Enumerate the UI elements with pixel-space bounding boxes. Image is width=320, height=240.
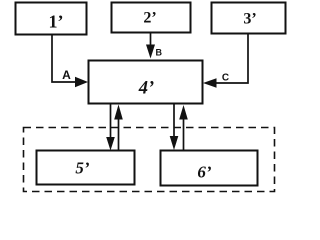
wire 6' up to 4'	[183, 118, 185, 151]
block 1'	[16, 3, 87, 35]
block 3'	[212, 3, 286, 34]
svg-text:C: C	[222, 73, 229, 84]
arrowhead into 6' (down)	[170, 136, 179, 150]
svg-text:4’: 4’	[138, 79, 154, 99]
block 2'	[112, 3, 191, 33]
block 6'	[161, 151, 258, 186]
dashed enclosure	[24, 128, 275, 192]
block 5'	[37, 151, 135, 185]
svg-text:A: A	[62, 68, 71, 82]
arrowhead into 5' (down)	[106, 137, 115, 151]
arrowhead into 4' from 5' (up)	[114, 105, 123, 120]
svg-text:1’: 1’	[49, 12, 64, 32]
wire 4' down to 5'	[110, 104, 112, 140]
arrowhead C into 4'	[203, 78, 217, 88]
svg-text:3’: 3’	[243, 11, 256, 28]
arrowhead into 4' from 6' (up)	[179, 105, 188, 120]
wire 5' up to 4'	[118, 118, 120, 151]
svg-text:B: B	[156, 48, 163, 58]
wire 2' to 4' (B)	[150, 33, 152, 47]
svg-text:2’: 2’	[143, 10, 156, 27]
svg-text:5’: 5’	[75, 159, 90, 178]
wire 1' to 4' (A)	[52, 35, 76, 83]
block 4'	[89, 61, 203, 104]
wire 3' to 4' (C)	[216, 34, 248, 84]
arrowhead A into 4'	[75, 77, 88, 88]
svg-text:6’: 6’	[197, 163, 212, 182]
arrowhead B into 4'	[146, 45, 155, 59]
wire 4' down to 6'	[173, 104, 175, 138]
